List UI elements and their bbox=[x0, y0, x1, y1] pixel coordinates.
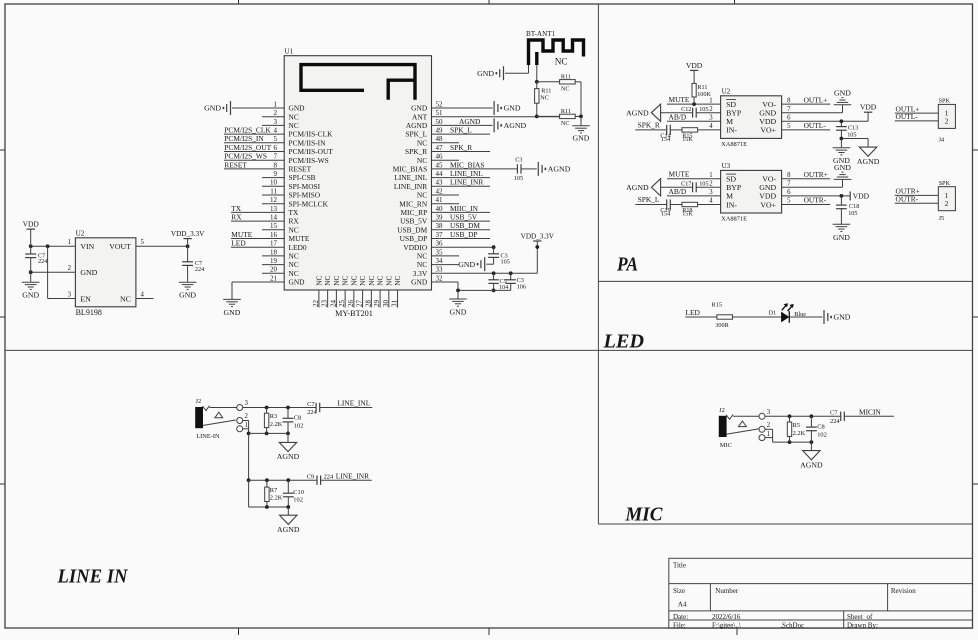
section divider PA bottom bbox=[598, 280, 972, 282]
svg-text:NC: NC bbox=[289, 269, 299, 278]
svg-text:1: 1 bbox=[767, 431, 770, 438]
MIC jack contact 1 circle bbox=[759, 435, 765, 441]
U1 pin 31 NC bbox=[397, 290, 399, 308]
svg-text:45: 45 bbox=[436, 161, 444, 169]
svg-text:105: 105 bbox=[848, 210, 857, 217]
svg-text:31: 31 bbox=[391, 300, 399, 308]
U1 pin 22 NC bbox=[318, 290, 320, 308]
svg-text:GND: GND bbox=[179, 291, 196, 300]
svg-text:32: 32 bbox=[436, 274, 444, 282]
svg-text:15K: 15K bbox=[682, 136, 693, 143]
svg-text:MIC: MIC bbox=[624, 504, 663, 526]
svg-text:1: 1 bbox=[709, 172, 712, 179]
svg-text:LINE_INL: LINE_INL bbox=[450, 169, 483, 178]
svg-text:NC: NC bbox=[561, 120, 570, 127]
svg-text:IN-: IN- bbox=[726, 126, 737, 135]
U2 pin4 wire NC bbox=[136, 298, 154, 300]
svg-text:43: 43 bbox=[436, 179, 444, 187]
svg-text:1: 1 bbox=[945, 192, 949, 200]
svg-text:24: 24 bbox=[329, 300, 337, 308]
svg-text:Sheet: Sheet bbox=[847, 613, 863, 621]
svg-text:34: 34 bbox=[436, 257, 444, 265]
svg-text:VO+: VO+ bbox=[760, 126, 776, 135]
svg-text:23: 23 bbox=[321, 300, 329, 308]
svg-text:MUTE: MUTE bbox=[231, 230, 252, 239]
svg-text:AGND: AGND bbox=[406, 121, 428, 130]
border zone tick right 2 bbox=[973, 316, 978, 318]
svg-text:RESET: RESET bbox=[289, 165, 312, 174]
border zone tick left 1 bbox=[0, 149, 5, 151]
svg-text:20: 20 bbox=[270, 266, 278, 274]
svg-text:Size: Size bbox=[673, 587, 685, 595]
inverted ground symbol U3 bbox=[834, 178, 852, 180]
svg-text:A4: A4 bbox=[678, 601, 687, 609]
U1 pin 23 NC bbox=[327, 290, 329, 308]
jack contact 1 circle bbox=[237, 426, 243, 432]
svg-text:SPI-MOSI: SPI-MOSI bbox=[289, 182, 321, 191]
border zone tick left 2 bbox=[0, 316, 5, 318]
svg-text:USB_5V: USB_5V bbox=[450, 213, 478, 222]
svg-text:TX: TX bbox=[231, 204, 242, 213]
VDD_3.3V power port right of U1 bbox=[536, 241, 538, 273]
svg-text:GND: GND bbox=[224, 308, 241, 317]
power port GND at VDDIO cap bbox=[484, 257, 486, 271]
svg-text:42: 42 bbox=[436, 187, 444, 195]
jack common node wire bbox=[247, 432, 251, 436]
capacitor C18 105 bbox=[840, 196, 842, 205]
svg-text:PA: PA bbox=[616, 254, 638, 276]
svg-text:Revision: Revision bbox=[891, 587, 916, 595]
VDD power port top left bbox=[27, 228, 35, 230]
svg-text:18: 18 bbox=[270, 248, 278, 256]
svg-text:GND: GND bbox=[477, 69, 494, 78]
svg-text:52: 52 bbox=[436, 100, 444, 108]
svg-text:OUTR+: OUTR+ bbox=[804, 170, 828, 179]
svg-text:36: 36 bbox=[436, 240, 444, 248]
svg-text:PCM/IIS-WS: PCM/IIS-WS bbox=[289, 156, 329, 165]
svg-text:VDD: VDD bbox=[23, 220, 40, 229]
J4 pin1 wire OUTL+ bbox=[895, 112, 939, 114]
net wire MICIN bbox=[844, 415, 894, 417]
power port GND at antenna bbox=[503, 66, 505, 80]
svg-text:6: 6 bbox=[787, 115, 791, 122]
MIC jack contact 2 circle bbox=[759, 426, 765, 432]
svg-text:OUTL+: OUTL+ bbox=[804, 95, 828, 104]
svg-text:2.2K: 2.2K bbox=[270, 495, 283, 502]
power port GND at U1 pin1 bbox=[230, 101, 232, 115]
svg-text:7: 7 bbox=[787, 181, 791, 188]
bottom node wire INR bbox=[248, 480, 250, 507]
svg-text:NC: NC bbox=[393, 275, 402, 285]
J4 pin2 wire OUTL- bbox=[895, 120, 939, 122]
capacitor C13 105 bbox=[840, 121, 842, 126]
svg-text:R11: R11 bbox=[561, 74, 571, 81]
AGND triangle at U3 BYP bbox=[651, 179, 660, 196]
LED D1 Blue bbox=[781, 312, 789, 323]
svg-text:MUTE: MUTE bbox=[289, 234, 310, 243]
svg-text:12: 12 bbox=[270, 196, 278, 204]
svg-text:R15: R15 bbox=[712, 302, 722, 309]
ground symbol below pin32 bbox=[457, 290, 459, 298]
wire EN to VIN bbox=[47, 246, 49, 298]
U1 pin52 wire to GND power port bbox=[432, 107, 493, 109]
U2 pin2 wire GND bbox=[31, 271, 76, 273]
U2 pin7 GND wire up bbox=[782, 112, 843, 114]
svg-text:105: 105 bbox=[847, 131, 856, 138]
AGND triangle below C10 bbox=[287, 507, 289, 515]
wire R15 to D1 bbox=[733, 316, 782, 318]
svg-text:8: 8 bbox=[274, 161, 278, 169]
net wire LINE_INL bbox=[320, 407, 373, 409]
U2 pin1 wire VIN bbox=[31, 245, 76, 247]
U3 pin8 wire OUTR+ bbox=[782, 178, 831, 180]
AGND triangle below C13 node bbox=[841, 138, 868, 140]
U1 pin 25 NC bbox=[344, 290, 346, 308]
svg-text:AGND: AGND bbox=[459, 117, 481, 126]
IC U1 MY-BT201 body bbox=[284, 56, 431, 290]
svg-text:49: 49 bbox=[436, 127, 444, 135]
capacitor C3 105 on MIC_BIAS bbox=[516, 164, 518, 173]
ground symbol below C13 bbox=[840, 139, 842, 148]
svg-text:224: 224 bbox=[324, 474, 334, 481]
svg-text:VO+: VO+ bbox=[760, 200, 776, 209]
svg-text:SPK_R: SPK_R bbox=[638, 121, 660, 130]
svg-text:PCM/IIS-IN: PCM/IIS-IN bbox=[289, 138, 327, 147]
svg-text:R3: R3 bbox=[270, 413, 277, 420]
svg-text:J4: J4 bbox=[939, 137, 945, 144]
U2 pin3 wire EN bbox=[48, 298, 76, 300]
capacitor C8 102 mic bbox=[810, 416, 812, 427]
svg-text:GND: GND bbox=[834, 88, 851, 97]
svg-text:TX: TX bbox=[289, 208, 300, 217]
MIC jack contact 3 circle bbox=[759, 413, 765, 419]
svg-text:LED: LED bbox=[231, 239, 246, 248]
svg-text:LINE_INR: LINE_INR bbox=[394, 182, 427, 191]
svg-text:GND: GND bbox=[289, 278, 306, 287]
svg-text:14: 14 bbox=[270, 214, 278, 222]
svg-text:6: 6 bbox=[787, 189, 791, 196]
svg-text:3: 3 bbox=[68, 291, 72, 298]
svg-text:NC: NC bbox=[555, 56, 568, 66]
U3 pin4 IN- chain C19 R18 bbox=[635, 204, 666, 206]
svg-text:300R: 300R bbox=[715, 322, 729, 329]
svg-text:GND: GND bbox=[204, 104, 221, 113]
svg-text:VIN: VIN bbox=[80, 242, 94, 251]
svg-text:154: 154 bbox=[661, 211, 670, 218]
U3 pin1 SD wire MUTE net bbox=[667, 178, 721, 180]
svg-text:RX: RX bbox=[289, 217, 300, 226]
wire MIC contact2 elbow bbox=[765, 428, 773, 430]
svg-text:LED: LED bbox=[686, 308, 701, 317]
svg-text:28: 28 bbox=[364, 300, 372, 308]
svg-text:PCM/IIS-CLK: PCM/IIS-CLK bbox=[289, 130, 334, 139]
section divider horizontal full width bbox=[5, 349, 973, 351]
wire contact2 elbow bbox=[243, 420, 249, 422]
antenna feed wire to GND port bbox=[528, 65, 530, 73]
svg-text:7: 7 bbox=[787, 106, 791, 113]
svg-text:NC: NC bbox=[289, 260, 299, 269]
svg-text:224: 224 bbox=[195, 266, 204, 273]
U2 pin2 BYP wire with cap C12 bbox=[661, 112, 693, 114]
svg-text:SPK_R: SPK_R bbox=[450, 143, 472, 152]
svg-text:GND: GND bbox=[504, 104, 521, 113]
U3 pin6 VDD wire bbox=[782, 195, 851, 197]
svg-text:30: 30 bbox=[382, 300, 390, 308]
svg-text:GND: GND bbox=[80, 268, 97, 277]
svg-text:AGND: AGND bbox=[857, 157, 880, 166]
svg-text:R7: R7 bbox=[270, 487, 278, 494]
svg-text:102: 102 bbox=[817, 431, 827, 438]
svg-text:47: 47 bbox=[436, 144, 444, 152]
svg-text:NC: NC bbox=[349, 275, 358, 285]
svg-text:102: 102 bbox=[293, 497, 303, 504]
svg-text:AGND: AGND bbox=[277, 525, 300, 534]
AGND triangle at U2 BYP bbox=[651, 104, 660, 121]
svg-text:102: 102 bbox=[294, 423, 304, 430]
svg-text:J2: J2 bbox=[719, 407, 725, 414]
resistor R11 NC vertical bbox=[536, 82, 538, 89]
svg-text:105: 105 bbox=[699, 106, 708, 113]
capacitor C5 104 on 3.3V rail bbox=[492, 271, 496, 275]
svg-text:4: 4 bbox=[141, 291, 145, 298]
svg-text:Number: Number bbox=[715, 587, 739, 595]
svg-text:1: 1 bbox=[68, 239, 71, 246]
svg-text:AB/D: AB/D bbox=[669, 112, 687, 121]
svg-text:44: 44 bbox=[436, 170, 444, 178]
svg-text:XA8871E: XA8871E bbox=[721, 215, 747, 222]
resistor R7 2.2K bbox=[265, 487, 269, 501]
svg-text:EN: EN bbox=[80, 294, 91, 303]
svg-text:106: 106 bbox=[517, 283, 526, 290]
U1 pin 28 NC bbox=[370, 290, 372, 308]
capacitor C7 224 at VIN bbox=[30, 246, 32, 254]
svg-text:MIC_RP: MIC_RP bbox=[400, 208, 427, 217]
svg-text:4: 4 bbox=[274, 127, 278, 135]
connector J5 SPK bbox=[938, 187, 955, 211]
power port AGND at MIC_BIAS bbox=[537, 162, 539, 176]
svg-text:2.2K: 2.2K bbox=[793, 430, 806, 437]
resistor R11 NC horizontal upper bbox=[537, 81, 560, 83]
svg-text:2022/6/16: 2022/6/16 bbox=[712, 613, 741, 621]
J5 pin1 wire OUTR+ bbox=[895, 194, 939, 196]
power port GND after LED bbox=[823, 310, 825, 324]
svg-text:2: 2 bbox=[945, 118, 949, 126]
svg-text:OUTR-: OUTR- bbox=[804, 196, 827, 205]
svg-text:USB_5V: USB_5V bbox=[400, 217, 428, 226]
svg-text:GND: GND bbox=[834, 163, 851, 172]
svg-text:.SchDoc: .SchDoc bbox=[780, 621, 804, 629]
svg-text:105: 105 bbox=[514, 175, 523, 182]
svg-text:GND: GND bbox=[458, 260, 475, 269]
svg-text:AB/D: AB/D bbox=[669, 187, 687, 196]
svg-text:5: 5 bbox=[787, 198, 791, 205]
svg-text:2: 2 bbox=[945, 200, 949, 208]
svg-text:NC: NC bbox=[289, 112, 299, 121]
svg-text:38: 38 bbox=[436, 222, 444, 230]
svg-text:USB_DP: USB_DP bbox=[450, 230, 478, 239]
svg-text:GND: GND bbox=[833, 233, 850, 242]
svg-text:SPK_L: SPK_L bbox=[405, 130, 427, 139]
svg-text:NC: NC bbox=[417, 252, 427, 261]
svg-text:ANT: ANT bbox=[412, 112, 428, 121]
capacitor C9 224 series LINE_INR bbox=[316, 476, 318, 485]
svg-text:LINE_INR: LINE_INR bbox=[450, 178, 483, 187]
svg-text:NC: NC bbox=[289, 121, 299, 130]
svg-text:17: 17 bbox=[270, 240, 278, 248]
inverted ground symbol U2 bbox=[834, 104, 852, 106]
svg-text:NC: NC bbox=[332, 275, 341, 285]
jack contact 2 circle bbox=[237, 418, 243, 424]
svg-text:AGND: AGND bbox=[277, 452, 300, 461]
U1 pin36 VDDIO wire bbox=[432, 246, 494, 248]
svg-text:48: 48 bbox=[436, 135, 444, 143]
svg-text:OUTL-: OUTL- bbox=[804, 121, 827, 130]
svg-text:224: 224 bbox=[830, 418, 840, 425]
svg-text:SPI-MISO: SPI-MISO bbox=[289, 191, 321, 200]
svg-text:U2: U2 bbox=[722, 88, 731, 96]
svg-text:MUTE: MUTE bbox=[669, 95, 690, 104]
svg-text:26: 26 bbox=[347, 300, 355, 308]
svg-text:VDD_3.3V: VDD_3.3V bbox=[521, 232, 555, 240]
svg-text:C7: C7 bbox=[307, 401, 315, 408]
svg-text:19: 19 bbox=[270, 257, 278, 265]
svg-text:224: 224 bbox=[307, 409, 317, 416]
svg-text:1: 1 bbox=[709, 97, 712, 104]
svg-text:22: 22 bbox=[312, 300, 320, 308]
svg-text:5: 5 bbox=[274, 135, 278, 143]
svg-text:NC: NC bbox=[120, 294, 131, 303]
svg-text:9: 9 bbox=[274, 170, 278, 178]
svg-text:C3: C3 bbox=[515, 157, 522, 164]
capacitor C3 106 on 3.3V rail bbox=[509, 271, 513, 275]
svg-text:GND: GND bbox=[834, 313, 851, 322]
resistor R15 300R bbox=[717, 315, 733, 319]
svg-text:100K: 100K bbox=[697, 91, 711, 98]
wire jack node down to INR node bbox=[248, 433, 250, 480]
wire contact3 to line_inl node bbox=[243, 407, 316, 409]
svg-text:SPI-MCLCK: SPI-MCLCK bbox=[289, 199, 329, 208]
U2 pin5 wire VOUT to VDD_3.3V bbox=[136, 245, 188, 247]
svg-text:SPK: SPK bbox=[939, 98, 951, 105]
wire MIC contact3 to node bbox=[765, 415, 841, 417]
svg-text:MIIC_IN: MIIC_IN bbox=[450, 204, 479, 213]
svg-text:GND: GND bbox=[411, 104, 428, 113]
U1 pin 27 NC bbox=[362, 290, 364, 308]
U1 pin32 GND wire bbox=[432, 281, 459, 283]
svg-text:8: 8 bbox=[787, 172, 791, 179]
svg-text:NC: NC bbox=[358, 275, 367, 285]
svg-text:51: 51 bbox=[436, 109, 444, 117]
svg-text:3.3V: 3.3V bbox=[413, 269, 428, 278]
svg-text:2: 2 bbox=[245, 413, 249, 420]
U1 pin33 3.3V rail wire bbox=[432, 272, 538, 274]
svg-text:VDD_3.3V: VDD_3.3V bbox=[171, 230, 205, 238]
svg-text:AGND: AGND bbox=[626, 183, 649, 192]
svg-text:5: 5 bbox=[787, 123, 791, 130]
svg-text:C9: C9 bbox=[307, 474, 314, 481]
svg-text:AGND: AGND bbox=[504, 121, 527, 130]
svg-text:NC: NC bbox=[540, 95, 549, 102]
svg-text:2: 2 bbox=[709, 106, 713, 113]
svg-text:Title: Title bbox=[673, 562, 686, 570]
svg-text:LINE_INR: LINE_INR bbox=[336, 471, 369, 480]
VDD power port right of U3 amp (bar) bbox=[849, 191, 851, 200]
U2 pin5 wire OUTL- bbox=[782, 129, 831, 131]
svg-text:SPK_L: SPK_L bbox=[450, 126, 472, 135]
border zone tick right 3 bbox=[973, 483, 978, 485]
svg-text:3: 3 bbox=[767, 409, 771, 416]
U2 pin1 SD wire MUTE net bbox=[667, 103, 721, 105]
resistor R3 2.2K bbox=[266, 408, 268, 414]
svg-text:NC: NC bbox=[315, 275, 324, 285]
VDD power port right of U2 amp bbox=[867, 112, 869, 121]
section divider vertical bbox=[597, 4, 599, 524]
U1 pin 29 NC bbox=[379, 290, 381, 308]
svg-text:C10: C10 bbox=[293, 489, 304, 496]
capacitor C8 102 bbox=[287, 408, 289, 419]
AGND triangle below C8 bbox=[287, 433, 289, 442]
U2 pin3 M wire AB/D net bbox=[667, 120, 721, 122]
U2 pin6 VDD wire bbox=[782, 120, 869, 122]
svg-text:MIC_BIAS: MIC_BIAS bbox=[450, 160, 485, 169]
U3 pin5 wire OUTR- bbox=[782, 204, 831, 206]
svg-text:3: 3 bbox=[245, 400, 249, 407]
svg-text:C8: C8 bbox=[817, 423, 824, 430]
svg-text:2: 2 bbox=[68, 265, 72, 272]
svg-text:PCM/I2S_CLK: PCM/I2S_CLK bbox=[224, 126, 271, 135]
resistor R11 100K pullup bbox=[692, 102, 696, 106]
svg-text:AGND: AGND bbox=[548, 165, 571, 174]
svg-text:SPI-CSB: SPI-CSB bbox=[289, 173, 316, 182]
svg-text:105: 105 bbox=[501, 258, 510, 265]
svg-text:IN-: IN- bbox=[726, 200, 737, 209]
svg-text:GND: GND bbox=[573, 133, 590, 142]
svg-text:SPK_L: SPK_L bbox=[638, 195, 660, 204]
border zone tick top 1 bbox=[238, 0, 240, 4]
ground symbol below C18 bbox=[833, 223, 851, 225]
svg-text:NC: NC bbox=[417, 260, 427, 269]
svg-text:2: 2 bbox=[709, 181, 713, 188]
svg-text:USB_DP: USB_DP bbox=[400, 234, 428, 243]
svg-text:MIC_BIAS: MIC_BIAS bbox=[393, 165, 428, 174]
svg-text:PCM/I2S_IN: PCM/I2S_IN bbox=[224, 134, 264, 143]
svg-text:J5: J5 bbox=[939, 215, 945, 222]
svg-text:7: 7 bbox=[274, 153, 278, 161]
svg-text:AGND: AGND bbox=[800, 460, 823, 469]
svg-text:13: 13 bbox=[270, 205, 278, 213]
border zone tick top 3 bbox=[734, 0, 736, 4]
svg-text:46: 46 bbox=[436, 153, 444, 161]
svg-text:GND: GND bbox=[22, 291, 39, 300]
svg-text:NC: NC bbox=[367, 275, 376, 285]
svg-text:RX: RX bbox=[231, 213, 242, 222]
svg-text:GND: GND bbox=[289, 104, 306, 113]
svg-text:U1: U1 bbox=[285, 48, 294, 56]
svg-text:NC: NC bbox=[341, 275, 350, 285]
svg-text:VDD: VDD bbox=[860, 103, 877, 112]
jack contact 3 circle bbox=[237, 405, 243, 411]
capacitor C3 105 decoupling VDDIO bbox=[493, 247, 495, 254]
op-amp U2 XA8871E body bbox=[721, 96, 782, 139]
svg-text:LED: LED bbox=[602, 331, 644, 353]
ground symbol below input cap bbox=[30, 272, 32, 282]
svg-text:4: 4 bbox=[709, 198, 713, 205]
capacitor C7 224 at VOUT bbox=[187, 246, 189, 261]
svg-text:33: 33 bbox=[436, 266, 444, 274]
U1 internal PCB antenna trace bbox=[301, 65, 415, 100]
capacitor C7 224 series MICIN bbox=[840, 412, 842, 421]
svg-text:C8: C8 bbox=[294, 415, 301, 422]
